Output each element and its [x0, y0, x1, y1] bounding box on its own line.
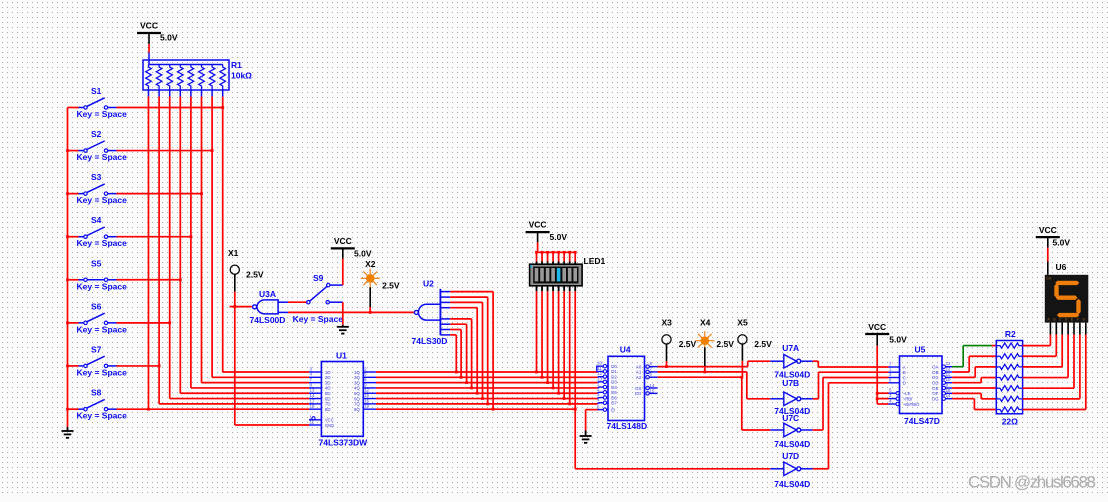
svg-text:18: 18 [310, 404, 315, 409]
inverter U7B 74LS04D [770, 378, 812, 416]
svg-text:5.0V: 5.0V [1053, 237, 1071, 247]
svg-text:2.5V: 2.5V [754, 339, 772, 349]
svg-text:16: 16 [364, 398, 369, 403]
svg-text:17: 17 [310, 398, 315, 403]
svg-text:A0: A0 [636, 364, 642, 369]
svg-text:Key = Space: Key = Space [77, 152, 128, 162]
wire bus row 2 U1 2Q to U4 D1 [376, 376, 603, 379]
svg-text:~BI/RBO: ~BI/RBO [903, 402, 920, 407]
R1 pin stubs [149, 90, 223, 97]
wire U2 input 2 to bus row 7 [440, 297, 489, 405]
svg-text:6D: 6D [325, 396, 331, 401]
svg-text:S4: S4 [91, 215, 102, 225]
wire bus row 4 U1 4Q to U4 D3 [376, 386, 603, 389]
latch U1 74LS373DW [309, 351, 376, 448]
svg-text:Key = Space: Key = Space [77, 195, 128, 205]
svg-text:VCC: VCC [325, 418, 334, 423]
svg-text:5Q: 5Q [354, 391, 360, 396]
wire LED1 cathode 4 to bus row 4 [552, 285, 555, 389]
wire U4 EI to ground [586, 410, 598, 431]
svg-text:14: 14 [946, 393, 951, 398]
svg-text:2.5V: 2.5V [246, 270, 264, 280]
wire S9 lower contact to ground [342, 302, 344, 325]
wire node to U1 pin 11 (latch enable) [235, 307, 309, 425]
decoder U5 74LS47D [889, 345, 953, 427]
svg-text:U4: U4 [620, 345, 631, 355]
switch S7 [68, 344, 161, 377]
switch S4 [68, 215, 193, 248]
inverter U7A 74LS04D [770, 343, 812, 380]
switch S2 [68, 129, 214, 162]
svg-text:VCC: VCC [334, 236, 352, 246]
svg-text:22Ω: 22Ω [1002, 417, 1018, 427]
svg-text:X4: X4 [700, 317, 711, 327]
svg-text:15: 15 [364, 393, 369, 398]
wire A0 to U7A input [658, 361, 771, 366]
power VCC V4 5.0V for U5 [865, 322, 907, 404]
svg-text:5.0V: 5.0V [889, 334, 907, 344]
svg-text:A1: A1 [636, 370, 642, 375]
wire U3A output to node [235, 306, 252, 308]
wire U2 input 6 to bus row 3 [440, 324, 468, 384]
ground under S9 [337, 325, 349, 334]
svg-text:5.0V: 5.0V [550, 232, 568, 242]
svg-text:13: 13 [310, 388, 315, 393]
svg-text:13: 13 [946, 361, 951, 366]
svg-text:7D: 7D [325, 402, 331, 407]
node X1 junction [230, 305, 237, 308]
svg-text:74LS04D: 74LS04D [774, 439, 810, 449]
power VCC V5 5.0V for U6 [1036, 225, 1071, 275]
svg-text:1Q: 1Q [354, 370, 360, 375]
svg-text:11: 11 [310, 420, 315, 425]
svg-text:VCC: VCC [868, 322, 886, 332]
probe X2 2.5V lamp [361, 259, 400, 314]
svg-text:OE: OE [932, 386, 938, 391]
wire bus row 6 U1 6Q to U4 D5 [376, 398, 603, 399]
svg-text:GND: GND [325, 423, 334, 428]
svg-text:D: D [903, 381, 906, 386]
resistor pack R2 22ohm [996, 329, 1022, 427]
wire bus row 8 U1 8Q to U4 D7 [376, 408, 577, 411]
wire R2 row7 to U6 segment pin 7 [1023, 323, 1086, 410]
wire pull-up column to S3 [202, 97, 310, 383]
wire U5 OB to R2 row2 [952, 356, 996, 372]
svg-text:2.5V: 2.5V [679, 339, 697, 349]
svg-text:CSDN @zhusl6688: CSDN @zhusl6688 [968, 473, 1096, 492]
encoder U4 74LS148D [597, 345, 658, 432]
svg-text:D7: D7 [611, 401, 617, 406]
wire U2 input 3 to bus row 6 [440, 302, 484, 400]
wire U2 input 8 to bus row 1 [440, 335, 457, 374]
svg-text:R1: R1 [231, 60, 242, 70]
probe X5 2.5V [737, 317, 772, 377]
wire R2 row2 to U6 segment pin 2 [1023, 323, 1057, 357]
svg-text:S9: S9 [313, 273, 324, 283]
switch S6 [68, 301, 172, 334]
svg-text:C: C [903, 375, 906, 380]
svg-text:74LS148D: 74LS148D [607, 421, 648, 431]
svg-text:U2: U2 [423, 278, 434, 288]
wire U5 OF to R2 row6 [952, 393, 996, 399]
svg-text:2Q: 2Q [354, 375, 360, 380]
svg-text:19: 19 [364, 404, 369, 409]
svg-text:74LS00D: 74LS00D [250, 315, 286, 325]
wire R2 row6 to U6 segment pin 6 [1023, 323, 1080, 399]
wire LED1 cathode 6 to bus row 6 [563, 285, 566, 400]
wire U5 OG to R2 row7 [952, 399, 996, 410]
wire R2 row5 to U6 segment pin 5 [1023, 323, 1074, 389]
wire bus row 8 down to U7D input [575, 409, 770, 469]
wire A2 to U7C input [658, 376, 771, 430]
inverter U7C 74LS04D [770, 413, 812, 449]
wire U2 input 1 to bus row 8 [440, 292, 494, 411]
svg-text:U7A: U7A [782, 343, 799, 353]
svg-text:5.0V: 5.0V [160, 33, 178, 43]
svg-text:~RBI: ~RBI [903, 396, 912, 401]
nand gate U3A 74LS00D [250, 289, 289, 325]
wire LED1 cathode 5 to bus row 5 [557, 285, 560, 394]
svg-text:6Q: 6Q [354, 396, 360, 401]
svg-text:OF: OF [932, 391, 938, 396]
svg-text:74LS373DW: 74LS373DW [319, 438, 369, 448]
power VCC V3 5.0V for LED1 [526, 220, 568, 253]
svg-text:X1: X1 [228, 248, 239, 258]
svg-text:S3: S3 [91, 172, 102, 182]
wire LED1 cathode 3 to bus row 3 [546, 285, 549, 384]
probe X4 2.5V lamp [695, 317, 734, 373]
svg-text:5.0V: 5.0V [354, 249, 372, 259]
svg-text:U5: U5 [915, 345, 926, 355]
led bar LED1 [530, 256, 606, 286]
svg-text:GS: GS [635, 386, 641, 391]
svg-text:2.5V: 2.5V [382, 281, 400, 291]
svg-text:Key = Space: Key = Space [293, 314, 344, 324]
wire U2 input 4 to bus row 5 [440, 308, 478, 395]
svg-text:VCC: VCC [529, 220, 547, 230]
switch S8 [68, 388, 150, 421]
wire pull-up column to S1 [223, 97, 309, 373]
svg-text:~LE: ~LE [903, 391, 911, 396]
svg-text:S7: S7 [91, 344, 102, 354]
svg-text:A2: A2 [636, 375, 642, 380]
inverter U7D 74LS04D [770, 451, 812, 489]
wire U2 input 7 to bus row 2 [440, 330, 462, 379]
power VCC V2 5.0V for S9 [331, 236, 372, 285]
svg-text:S5: S5 [91, 258, 102, 268]
probe X3 2.5V [662, 317, 697, 368]
wire bus row 1 U1 1Q to U4 D0 [376, 370, 603, 373]
svg-text:12: 12 [364, 388, 369, 393]
svg-text:X3: X3 [662, 317, 673, 327]
wire bus row 5 U1 5Q to U4 D4 [376, 391, 603, 394]
wire pull-up column to S6 [170, 97, 309, 399]
wire bus row 7 U1 7Q to U4 D6 [376, 403, 603, 404]
wire U7D output to U5 D [813, 383, 889, 469]
svg-text:U7C: U7C [782, 413, 799, 423]
svg-text:8Q: 8Q [354, 407, 360, 412]
svg-text:7Q: 7Q [354, 402, 360, 407]
wire U5 OE to R2 row5 [952, 387, 996, 389]
wire U7C output to U5 C [813, 378, 889, 431]
svg-text:2.5V: 2.5V [716, 339, 734, 349]
wire pull-up column to S7 [159, 97, 309, 404]
svg-text:C: C [1059, 317, 1062, 321]
svg-text:8D: 8D [325, 407, 331, 412]
svg-text:2D: 2D [325, 375, 331, 380]
wire U2 output to U3A input2 [288, 311, 414, 313]
svg-text:10kΩ: 10kΩ [231, 71, 252, 81]
svg-text:U6: U6 [1056, 262, 1067, 272]
wire S8 row to U1 8D (bus row 8) [149, 408, 310, 410]
wire pull-up column to S4 [191, 97, 309, 388]
wire U3A input1 to S9 [288, 301, 307, 303]
svg-text:15: 15 [650, 388, 655, 393]
svg-text:11: 11 [946, 372, 951, 377]
svg-text:OG: OG [932, 396, 939, 401]
svg-text:LED1: LED1 [584, 256, 606, 266]
svg-text:74LS30D: 74LS30D [412, 336, 448, 346]
watermark text [968, 473, 1096, 492]
svg-text:74LS04D: 74LS04D [774, 479, 810, 489]
svg-text:VCC: VCC [140, 21, 158, 31]
svg-text:EI: EI [611, 407, 615, 412]
svg-text:X2: X2 [365, 259, 376, 269]
svg-text:3D: 3D [325, 380, 331, 385]
svg-text:10: 10 [946, 377, 951, 382]
wire U5 OA to R2 row1 (green) [952, 346, 996, 367]
wire U7B output to U5 B [813, 372, 889, 399]
svg-text:1D: 1D [325, 370, 331, 375]
svg-text:Key = Space: Key = Space [77, 238, 128, 248]
svg-text:14: 14 [650, 383, 655, 388]
svg-text:CA: CA [1046, 277, 1052, 281]
wire VCC to U5 control pins [876, 392, 889, 404]
wire R2 row4 to U6 segment pin 4 [1023, 323, 1069, 378]
probe X1 2.5V [228, 248, 264, 307]
svg-text:Key = Space: Key = Space [77, 281, 128, 291]
wire R2 row3 to U6 segment pin 3 [1023, 323, 1063, 367]
wire U5 OC to R2 row3 [952, 367, 996, 377]
svg-text:Key = Space: Key = Space [77, 411, 128, 421]
seven segment display U6 [1045, 262, 1089, 322]
ground for switches [62, 427, 74, 438]
wire R2 row1 to U6 segment pin 1 [1023, 323, 1051, 346]
svg-text:OC: OC [932, 375, 939, 380]
ground for U4 EI [580, 431, 592, 443]
svg-text:12: 12 [946, 367, 951, 372]
svg-text:U7B: U7B [782, 378, 799, 388]
nand gate U2 74LS30D [412, 278, 448, 346]
wire LED anode bus [535, 251, 577, 265]
power VCC V1 5.0V [137, 21, 178, 53]
svg-text:S8: S8 [91, 388, 102, 398]
wire LED1 cathode 2 to bus row 2 [541, 285, 544, 378]
svg-text:B: B [903, 370, 906, 375]
svg-text:U3A: U3A [259, 289, 276, 299]
switch S1 [68, 86, 225, 119]
svg-text:15: 15 [946, 388, 951, 393]
wire U2 input 5 to bus row 4 [440, 319, 473, 389]
svg-text:OA: OA [932, 365, 938, 370]
svg-text:Key = Space: Key = Space [77, 324, 128, 334]
svg-text:S2: S2 [91, 129, 102, 139]
wire LED1 cathode 1 to bus row 1 [535, 285, 538, 373]
svg-text:Key = Space: Key = Space [77, 367, 128, 377]
wire pull-up column to S8 [148, 97, 150, 410]
svg-text:3Q: 3Q [354, 380, 360, 385]
wire U4 D0 jog from bus row 1 [597, 366, 604, 372]
wire U7A output to U5 A [813, 361, 889, 367]
switch S9 [293, 273, 344, 324]
svg-text:S6: S6 [91, 301, 102, 311]
svg-text:U1: U1 [336, 351, 347, 361]
wire left common vertical to ground [66, 108, 69, 428]
svg-text:R2: R2 [1005, 329, 1016, 339]
svg-text:U7D: U7D [782, 451, 799, 461]
wire LED1 cathode 7 to bus row 7 [568, 285, 571, 405]
svg-text:G: G [1083, 317, 1086, 321]
svg-text:14: 14 [310, 393, 315, 398]
wire pull-up column to S2 [212, 97, 309, 378]
svg-text:S1: S1 [91, 86, 102, 96]
svg-text:5D: 5D [325, 391, 331, 396]
svg-text:D: D [1065, 317, 1068, 321]
svg-text:74LS47D: 74LS47D [904, 416, 940, 426]
wire LED1 cathode 8 to bus row 8 [574, 285, 577, 410]
svg-text:X5: X5 [737, 317, 748, 327]
wire U5 OD to R2 row4 [952, 378, 996, 383]
svg-text:EO: EO [635, 391, 642, 396]
svg-text:OB: OB [932, 370, 938, 375]
resistor pack R1 10k [143, 53, 252, 91]
svg-text:VCC: VCC [1039, 225, 1057, 235]
switch S5 [68, 258, 182, 291]
svg-text:Key = Space: Key = Space [77, 109, 128, 119]
svg-text:4Q: 4Q [354, 386, 360, 391]
switch S3 [68, 172, 203, 205]
wire bus row 3 U1 3Q to U4 D2 [376, 381, 603, 384]
wire pull-up column to S5 [180, 97, 309, 394]
svg-text:OD: OD [932, 380, 939, 385]
svg-text:4D: 4D [325, 386, 331, 391]
wire A1 to U7B input [658, 372, 771, 399]
